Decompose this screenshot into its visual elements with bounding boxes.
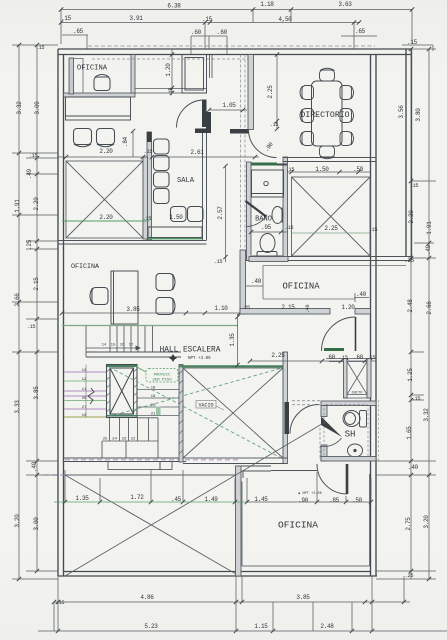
svg-text:3.85: 3.85 <box>33 386 40 400</box>
baño bottom wall <box>249 257 288 262</box>
baño door arc <box>247 217 266 227</box>
sh bottom wall <box>321 457 376 462</box>
desk top-left oficina <box>66 97 131 120</box>
purple line stair bottom <box>64 461 186 463</box>
svg-text:10: 10 <box>82 414 87 418</box>
oficina inner corner lines <box>263 266 355 300</box>
wall left exterior <box>58 49 64 576</box>
svg-text:26: 26 <box>82 397 87 401</box>
sh left wall pieces <box>321 406 327 417</box>
svg-text:.49: .49 <box>425 244 432 255</box>
svg-text:.15: .15 <box>27 324 36 330</box>
svg-text:24: 24 <box>112 438 117 442</box>
door leaf center-right <box>355 317 357 351</box>
dim 1.35 vertical <box>237 314 239 366</box>
svg-text:2.61: 2.61 <box>190 149 204 156</box>
svg-text:.15: .15 <box>407 39 418 46</box>
sala chairs pair <box>171 207 204 222</box>
svg-text:.95: .95 <box>261 224 272 231</box>
green dim line bottom left <box>54 501 247 503</box>
right return flight treads <box>137 390 179 416</box>
wall top exterior <box>58 49 412 55</box>
svg-text:.15: .15 <box>29 153 38 159</box>
oficina top inner line <box>263 265 406 267</box>
directorio chair bottom <box>320 146 335 157</box>
dim line above right X box <box>288 171 371 173</box>
up arrow over treads <box>86 346 140 350</box>
ducto walls <box>327 359 376 399</box>
main center wall band <box>240 309 330 315</box>
svg-text:SH: SH <box>345 430 356 440</box>
svg-text:.15: .15 <box>56 600 65 606</box>
svg-text:DUCTO: DUCTO <box>352 392 363 396</box>
wall bottom exterior <box>58 572 377 577</box>
svg-text:.85: .85 <box>329 497 340 504</box>
wall under left X box <box>58 241 207 245</box>
wall right of top-left oficina <box>131 55 135 94</box>
svg-text:11: 11 <box>82 388 87 392</box>
svg-text:12: 12 <box>82 378 87 382</box>
sh toilet <box>343 411 367 428</box>
svg-text:2.25: 2.25 <box>267 85 274 99</box>
svg-text:.50: .50 <box>352 497 363 504</box>
svg-text:2.25: 2.25 <box>271 352 285 359</box>
dim line 3.85/1.10 row <box>62 312 240 314</box>
corridor-right wall band <box>240 250 246 314</box>
svg-text:.65: .65 <box>355 28 366 35</box>
svg-text:.45: .45 <box>171 496 182 503</box>
roof overhang dashed top <box>88 45 375 47</box>
svg-text:25: 25 <box>103 438 108 442</box>
svg-text:2.20: 2.20 <box>99 148 113 155</box>
svg-text:OFICINA: OFICINA <box>278 520 318 531</box>
sala entry door arc <box>177 100 205 128</box>
corridor dashed lines vertical <box>92 55 253 311</box>
svg-text:.40: .40 <box>251 278 262 285</box>
svg-text:.25: .25 <box>405 573 414 579</box>
svg-text:1.15: 1.15 <box>254 623 268 630</box>
directorio chairs right <box>340 86 354 146</box>
svg-text:2.15: 2.15 <box>33 277 40 291</box>
svg-text:BAÑO: BAÑO <box>255 215 272 224</box>
baño top green lintel <box>251 163 277 166</box>
svg-text:2.20: 2.20 <box>408 210 415 224</box>
svg-text:.90: .90 <box>298 497 309 504</box>
svg-text:3.80: 3.80 <box>415 108 422 122</box>
svg-text:1.45: 1.45 <box>254 496 268 503</box>
baño wall basin <box>272 207 283 224</box>
svg-text:OFICINA: OFICINA <box>71 263 100 271</box>
break squiggle <box>88 388 94 404</box>
door arc center-right <box>322 317 356 351</box>
svg-text:2.20: 2.20 <box>99 214 113 221</box>
vacio label <box>196 401 224 411</box>
lower-left flight treads (alternating) <box>64 372 107 417</box>
svg-text:2.66: 2.66 <box>14 293 21 307</box>
wall piece right of door <box>355 309 371 315</box>
elevator wall hatches <box>107 369 138 413</box>
svg-text:.15: .15 <box>143 216 152 222</box>
stair bottom wall <box>64 458 187 462</box>
wall right exterior upper <box>406 49 412 260</box>
svg-text:1.10: 1.10 <box>214 305 228 312</box>
sala left wall <box>147 132 152 240</box>
sala entry door leaf <box>202 100 207 128</box>
svg-text:21: 21 <box>151 413 156 417</box>
svg-text:.60: .60 <box>353 354 364 361</box>
svg-text:2.15: 2.15 <box>281 304 295 311</box>
svg-text:.60: .60 <box>191 29 202 36</box>
dim 2.61 line <box>152 156 259 158</box>
directorio door green lintel <box>257 163 276 166</box>
svg-text:OFICINA: OFICINA <box>283 282 321 292</box>
dim .84 vertical <box>132 131 134 157</box>
svg-text:6.38: 6.38 <box>167 3 181 10</box>
svg-text:.65: .65 <box>73 28 84 35</box>
wall pier closet top-left <box>69 58 74 94</box>
svg-text:2.66: 2.66 <box>426 301 433 315</box>
svg-text:4,50: 4,50 <box>278 16 292 23</box>
svg-text:.40: .40 <box>356 291 367 298</box>
svg-text:3.09: 3.09 <box>34 101 41 115</box>
left X box right wall <box>143 157 148 239</box>
entry jamb lines <box>210 55 213 79</box>
svg-text:.60: .60 <box>217 29 228 36</box>
svg-text:19: 19 <box>151 395 156 399</box>
stair number rail <box>85 365 87 418</box>
svg-text:3.32: 3.32 <box>423 408 430 422</box>
svg-text:3.33: 3.33 <box>14 400 21 414</box>
baño left wall <box>247 162 252 261</box>
svg-text:1.50: 1.50 <box>315 166 329 173</box>
svg-text:HALL ESCALERA: HALL ESCALERA <box>160 347 221 355</box>
desk mid-left oficina <box>111 271 138 324</box>
svg-text:DIRECTORIO: DIRECTORIO <box>300 111 349 120</box>
sala right wall lower <box>203 133 207 240</box>
directorio table <box>312 81 343 146</box>
svg-text:2.57: 2.57 <box>217 206 224 220</box>
wall right exterior lower <box>371 55 377 577</box>
svg-text:PROYECC: PROYECC <box>154 374 171 378</box>
svg-text:.15: .15 <box>214 259 223 265</box>
svg-text:1.91: 1.91 <box>14 199 21 213</box>
left X box <box>66 161 143 238</box>
sh dashed wall opening <box>292 401 321 405</box>
sala credenza <box>148 227 202 238</box>
wall band under top-left oficina <box>64 89 207 98</box>
svg-text:.15: .15 <box>61 15 72 22</box>
svg-text:.15: .15 <box>168 88 174 97</box>
vacio top green bar <box>179 365 286 367</box>
right X box <box>292 177 371 256</box>
baño right wall <box>283 157 288 261</box>
svg-text:.15: .15 <box>410 183 419 189</box>
vacio left wall hatches <box>179 370 183 454</box>
sh inner dashed outline <box>324 405 368 461</box>
bottom hall walls <box>237 466 317 478</box>
svg-text:1.72: 1.72 <box>130 494 144 501</box>
svg-text:3.85: 3.85 <box>126 306 140 313</box>
svg-text:14: 14 <box>102 344 107 348</box>
svg-text:SALA: SALA <box>177 177 195 185</box>
svg-text:.59: .59 <box>353 166 364 173</box>
sala chairs column <box>154 139 170 204</box>
svg-text:NPT +3.05: NPT +3.05 <box>188 357 211 361</box>
bottom oficina inner rect <box>242 474 370 566</box>
right chains vertical lines <box>376 45 436 579</box>
svg-text:.40: .40 <box>408 464 419 471</box>
svg-text:.84: .84 <box>122 136 129 147</box>
vacio bottom wall <box>183 458 287 464</box>
svg-text:1.50: 1.50 <box>169 214 183 221</box>
directorio bottom wall <box>283 158 376 162</box>
svg-text:3.91: 3.91 <box>129 15 143 22</box>
baño door leaf diagonal <box>246 201 267 217</box>
svg-text:1.35: 1.35 <box>75 495 89 502</box>
svg-text:.40: .40 <box>305 305 311 314</box>
svg-text:17: 17 <box>129 344 134 348</box>
svg-text:5.23: 5.23 <box>144 623 158 630</box>
step numbers 18-21 <box>151 387 156 417</box>
bottom-left X area <box>65 425 321 577</box>
svg-text:.15: .15 <box>369 227 378 233</box>
svg-text:.15: .15 <box>286 167 295 173</box>
directorio door arc <box>249 130 277 158</box>
vacio right wall <box>283 352 288 464</box>
svg-text:15: 15 <box>111 344 116 348</box>
svg-text:.15: .15 <box>36 45 45 51</box>
bottom oficina door arc <box>317 464 347 494</box>
left chains vertical lines <box>12 45 58 579</box>
chair mid-left oficina <box>90 288 108 305</box>
svg-text:1.20: 1.20 <box>165 63 172 77</box>
svg-text:▲ NPT +2.05: ▲ NPT +2.05 <box>298 491 322 496</box>
sh door flap <box>321 417 342 438</box>
bottom oficina walls <box>236 466 242 576</box>
green line under credenza <box>148 238 202 240</box>
svg-text:3.56: 3.56 <box>398 105 405 119</box>
svg-text:OFICINA: OFICINA <box>77 65 108 73</box>
svg-text:.40: .40 <box>31 461 38 472</box>
svg-text:.15: .15 <box>285 225 294 231</box>
vacio X <box>183 368 283 458</box>
wall lintel left of ducto <box>324 348 344 351</box>
green marker bar <box>156 407 161 416</box>
bottom oficina door leaf <box>346 464 349 494</box>
svg-text:1.25: 1.25 <box>407 368 414 382</box>
svg-text:13: 13 <box>82 369 87 373</box>
svg-text:3.32: 3.32 <box>16 101 23 115</box>
purple projection dashed lines <box>44 460 240 475</box>
svg-text:1.49: 1.49 <box>204 496 218 503</box>
svg-text:3.00: 3.00 <box>33 517 40 531</box>
sh sink <box>348 444 363 460</box>
top chain row1 <box>61 10 412 55</box>
bottom chains <box>38 576 447 631</box>
svg-text:1.65: 1.65 <box>406 426 413 440</box>
cabinet at entry <box>182 55 207 94</box>
green dim line across left X box <box>62 220 149 222</box>
baño toilet <box>252 234 283 259</box>
corridor door dark jamb <box>285 402 290 434</box>
upper flight treads <box>86 326 153 357</box>
svg-text:3.20: 3.20 <box>423 515 430 529</box>
wall corner L below sala door <box>206 112 211 133</box>
directorio left wall <box>248 55 254 130</box>
svg-text:22: 22 <box>131 438 136 442</box>
sh top wall <box>321 401 376 406</box>
svg-text:1.18: 1.18 <box>260 1 274 8</box>
long green line above stairs <box>62 325 238 327</box>
sh dim dashed ext <box>378 400 380 461</box>
hall dim line 2.25/.60 row <box>250 360 376 362</box>
elevator shaft <box>107 365 138 418</box>
green projection dashed diagonals <box>109 367 282 459</box>
dim line above left X box <box>58 156 147 158</box>
svg-text:1.20: 1.20 <box>341 304 355 311</box>
dim 2.57 vertical <box>225 166 227 262</box>
dim 1.05 line <box>209 109 247 111</box>
baño bottom / oficina top wall <box>246 257 412 261</box>
svg-text:27: 27 <box>82 406 87 410</box>
svg-text:.60: .60 <box>325 354 336 361</box>
directorio chairs left <box>300 86 314 146</box>
dim 1.20/.15 vertical at entry <box>171 49 173 93</box>
svg-text:.15: .15 <box>202 16 213 23</box>
svg-text:.25: .25 <box>26 239 33 250</box>
elevator green bars <box>107 365 137 367</box>
svg-text:2.48: 2.48 <box>407 299 414 313</box>
svg-text:2.25: 2.25 <box>324 225 338 232</box>
svg-text:1.35: 1.35 <box>229 333 236 347</box>
svg-text:.15: .15 <box>412 396 421 402</box>
PROYECC green label box <box>146 369 178 383</box>
svg-text:2.20: 2.20 <box>33 197 40 211</box>
wall piece corridor right <box>230 129 249 134</box>
svg-text:16: 16 <box>120 344 125 348</box>
svg-text:1.91: 1.91 <box>426 221 433 235</box>
visitor chairs mid-left oficina <box>156 274 175 315</box>
svg-text:25: 25 <box>244 305 250 311</box>
dim .40 vertical pair <box>246 285 263 287</box>
svg-text:.15: .15 <box>339 355 348 361</box>
directorio chair top <box>320 70 335 81</box>
svg-text:.49: .49 <box>26 168 33 179</box>
svg-text:4.86: 4.86 <box>140 594 154 601</box>
landing step boxes <box>108 462 160 470</box>
svg-text:VACIO: VACIO <box>198 403 213 409</box>
svg-text:3.63: 3.63 <box>338 1 352 8</box>
svg-text:.15: .15 <box>144 149 153 155</box>
baño sink cabinet <box>252 170 284 197</box>
stair step numbers <box>82 344 136 442</box>
closet line <box>82 58 84 93</box>
interior dim verticals bottom row <box>65 470 371 502</box>
vacio left wall <box>179 365 183 463</box>
chair top-left oficina <box>94 75 110 91</box>
svg-text:1.05: 1.05 <box>222 102 236 109</box>
svg-text:.15: .15 <box>270 122 279 128</box>
svg-text:23: 23 <box>122 438 127 442</box>
stair hall south double line <box>86 352 181 357</box>
svg-text:.15: .15 <box>367 355 376 361</box>
dim 2.25/.15 vertical directorio <box>276 55 278 130</box>
svg-text:2.75: 2.75 <box>405 517 412 531</box>
visitor chairs top-left oficina <box>74 129 115 147</box>
ducto X <box>347 362 367 395</box>
svg-text:3.20: 3.20 <box>14 514 21 528</box>
svg-text:2.48: 2.48 <box>320 623 334 630</box>
lower flight treads below elevator <box>102 418 158 459</box>
svg-text:2ER PISO: 2ER PISO <box>152 379 172 383</box>
svg-text:.25: .25 <box>404 257 415 264</box>
corridor door arc <box>290 405 319 434</box>
dim extension dashed <box>319 428 321 460</box>
svg-text:3.85: 3.85 <box>296 594 310 601</box>
